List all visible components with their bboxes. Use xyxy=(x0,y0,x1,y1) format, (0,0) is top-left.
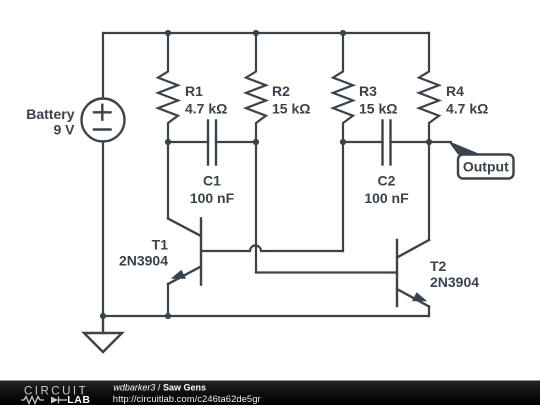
svg-text:R3: R3 xyxy=(359,83,377,99)
wire R1 bottom to C1 left xyxy=(168,141,208,143)
svg-text:2N3904: 2N3904 xyxy=(430,274,479,290)
svg-text:R1: R1 xyxy=(185,83,203,99)
capacitor C1 label xyxy=(190,173,235,207)
footer logo resistor-diode icon xyxy=(21,397,67,404)
capacitor C2 label xyxy=(364,173,409,207)
svg-text:R4: R4 xyxy=(446,83,464,99)
capacitor C1 xyxy=(208,121,216,165)
wire T1 emitter vertical xyxy=(167,284,169,316)
svg-text:C2: C2 xyxy=(378,173,396,189)
node top R2 xyxy=(253,30,259,36)
output flag pointer xyxy=(448,141,481,155)
resistor R4 label xyxy=(446,83,488,117)
svg-text:Output: Output xyxy=(463,159,509,175)
resistor R1 label xyxy=(185,83,227,117)
transistor T1 label xyxy=(119,237,168,269)
svg-text:15 kΩ: 15 kΩ xyxy=(272,101,310,117)
svg-text:100 nF: 100 nF xyxy=(190,190,235,206)
node R3 bottom xyxy=(340,139,346,145)
wire C2 right to R4 bottom xyxy=(391,141,430,143)
svg-text:4.7 kΩ: 4.7 kΩ xyxy=(446,101,488,117)
svg-text:Battery: Battery xyxy=(26,106,74,122)
wire bottom rail xyxy=(103,315,429,317)
resistor R4 xyxy=(419,33,439,142)
resistor R3 xyxy=(333,33,353,142)
node top R3 xyxy=(340,30,346,36)
svg-text:T2: T2 xyxy=(430,258,447,274)
capacitor C2 xyxy=(383,121,391,165)
svg-text:C1: C1 xyxy=(203,173,221,189)
output flag box xyxy=(458,155,514,179)
transistor T1 emitter arrow xyxy=(171,270,186,279)
battery V1 xyxy=(82,99,125,142)
transistor T2 emitter arrow xyxy=(412,292,427,301)
transistor T2 xyxy=(397,240,429,307)
node R4 bottom / output xyxy=(426,139,432,145)
wire battery top lead xyxy=(102,33,104,99)
wire T1 base up to R3 node xyxy=(342,142,344,251)
battery label xyxy=(26,106,75,138)
svg-text:R2: R2 xyxy=(272,83,290,99)
transistor T2 label xyxy=(430,258,479,290)
node battery bottom / ground xyxy=(100,313,106,319)
svg-text:15 kΩ: 15 kΩ xyxy=(359,101,397,117)
svg-text:100 nF: 100 nF xyxy=(364,190,409,206)
svg-text:4.7 kΩ: 4.7 kΩ xyxy=(185,101,227,117)
wire T1 collector vertical xyxy=(167,142,169,219)
wire T2 emitter vertical xyxy=(428,307,430,317)
wire battery bottom lead xyxy=(102,142,104,317)
wire output stub xyxy=(429,141,451,143)
svg-text:http://circuitlab.com/c246ta62: http://circuitlab.com/c246ta62de5gr xyxy=(113,394,261,405)
node T1 emitter / bottom rail xyxy=(165,313,171,319)
wire T1 base with hop over T2 base feed xyxy=(201,246,343,252)
svg-text:T1: T1 xyxy=(152,237,169,253)
wire C1 right to R2 bottom xyxy=(216,141,256,143)
wire R2 node down to T2 base feed xyxy=(255,142,257,273)
ground xyxy=(84,316,122,352)
svg-text:LAB: LAB xyxy=(67,394,90,405)
node top R1 xyxy=(165,30,171,36)
wire T2 base horizontal xyxy=(256,271,397,273)
wire top rail xyxy=(103,32,429,34)
node R1 bottom xyxy=(165,139,171,145)
svg-text:9 V: 9 V xyxy=(53,121,75,137)
wire R3 bottom to C2 left xyxy=(343,141,383,143)
resistor R2 label xyxy=(272,83,310,117)
resistor R2 xyxy=(246,33,266,142)
transistor T1 xyxy=(168,219,201,285)
resistor R3 label xyxy=(359,83,397,117)
svg-text:wdbarker3 / Saw Gens: wdbarker3 / Saw Gens xyxy=(113,383,206,393)
node R2 bottom xyxy=(253,139,259,145)
resistor R1 xyxy=(158,33,178,142)
wire T2 collector vertical xyxy=(428,142,430,240)
svg-text:2N3904: 2N3904 xyxy=(119,253,168,269)
